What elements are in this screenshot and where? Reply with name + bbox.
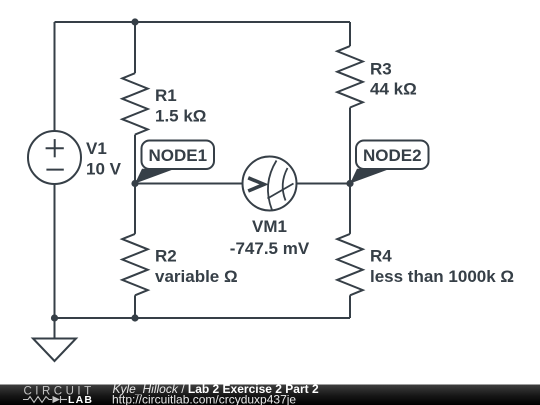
label VM1 value [230,217,310,258]
junction bottom left (ground) [51,314,58,321]
node NODE2 [350,141,429,184]
svg-text:NODE1: NODE1 [148,146,207,165]
svg-text:10 V: 10 V [86,160,122,179]
svg-text:-747.5 mV: -747.5 mV [230,239,310,258]
wire NODE1 to voltmeter [135,183,243,185]
wire R2 bottom lead [134,295,136,318]
wire left vertical lower (V1 to bottom rail) [54,184,56,318]
wire ground stem [54,318,56,339]
label R1 value [155,86,206,126]
svg-text:V1: V1 [86,139,107,158]
footer bar [0,385,540,405]
wire bottom horizontal [55,317,351,319]
voltage source V1 [28,131,81,184]
label NODE2 text [363,146,422,165]
wire R1 top lead [134,22,136,73]
wire R1 bottom lead to NODE1 [134,135,136,184]
resistor R1 [122,73,148,134]
footer attribution text [112,382,319,405]
wire R3 top lead [349,22,351,46]
wire R4 bottom lead [349,295,351,318]
svg-text:1.5 kΩ: 1.5 kΩ [155,106,206,125]
voltmeter VM1 [243,157,297,211]
wire NODE1 to R2 [134,184,136,234]
CircuitLab logo [23,385,95,405]
junction top R1 [131,18,138,25]
svg-text:http://circuitlab.com/crcyduxp: http://circuitlab.com/crcyduxp437je [112,393,296,405]
wire R3 bottom lead to NODE2 [349,108,351,184]
label R2 value [155,247,238,287]
resistor R2 [122,234,148,295]
svg-text:NODE2: NODE2 [363,146,422,165]
wire NODE2 to R4 [349,184,351,234]
node A (NODE1 junction dot) [131,180,138,187]
svg-text:variable Ω: variable Ω [155,267,238,286]
svg-text:R2: R2 [155,247,177,266]
svg-text:less than 1000k Ω: less than 1000k Ω [370,267,514,286]
svg-text:R3: R3 [370,59,392,78]
resistor R3 [337,46,363,107]
ground [33,339,76,362]
junction bottom R2 [131,314,138,321]
svg-text:44 kΩ: 44 kΩ [370,80,417,99]
label V1 value [86,139,122,179]
label R4 value [370,247,514,287]
wire voltmeter to NODE2 [297,183,351,185]
wire left vertical upper (top rail to V1) [54,22,56,131]
node NODE1 [135,141,214,184]
svg-text:R1: R1 [155,86,177,105]
svg-text:LAB: LAB [68,394,93,405]
svg-text:R4: R4 [370,247,392,266]
label R3 value [370,59,417,98]
svg-text:VM1: VM1 [252,217,287,236]
label NODE1 text [148,146,207,165]
wire top horizontal [55,21,351,23]
node B (NODE2 junction dot) [346,180,353,187]
resistor R4 [337,234,363,295]
